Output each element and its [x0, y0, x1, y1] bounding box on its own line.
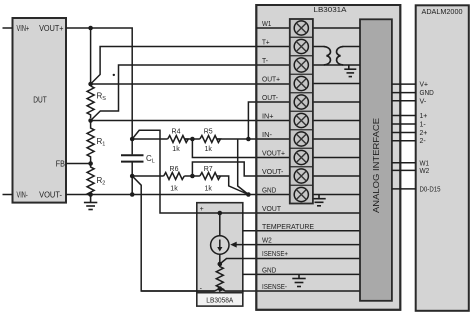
svg-text:VIN+: VIN+ [17, 24, 30, 33]
svg-text:+: + [200, 206, 204, 213]
svg-text:W1: W1 [262, 19, 271, 28]
node R6-R7 junction [190, 174, 195, 179]
terminal screw 4 OUT+ [294, 76, 308, 90]
wire OUT+ internal to AI [313, 83, 360, 85]
svg-text:TEMPERATURE: TEMPERATURE [262, 222, 314, 231]
node R4-R5 junction [190, 137, 195, 142]
wire VOUT- sense (R6R7 mid jog to VOUT- terminal) [192, 162, 289, 176]
svg-text:IN+: IN+ [262, 112, 274, 121]
capacitor CL [121, 139, 155, 176]
resistor R4 [168, 129, 189, 154]
transformer left coil [324, 47, 331, 66]
wire ISENSE- [220, 289, 360, 292]
wire VIN- stub [3, 194, 13, 196]
wire current source to sense resistor [219, 254, 221, 264]
wire T+ internal to AI [313, 46, 360, 48]
svg-text:R7: R7 [204, 166, 213, 173]
wire VIN+ stub [3, 27, 13, 29]
wire W2 with arrow [230, 242, 360, 248]
node junction on VOUT+ wire above Rs [88, 26, 93, 31]
node Rs bottom [88, 118, 93, 123]
analog interface block [360, 19, 392, 301]
wire W1 internal [256, 27, 360, 29]
node GND tie below C_L [130, 192, 135, 197]
ground on transformer secondary [344, 65, 356, 77]
svg-text:1k: 1k [204, 186, 212, 193]
svg-text:VOUT+: VOUT+ [262, 149, 285, 158]
node FB junction [88, 161, 93, 166]
resistor R6 [164, 166, 185, 193]
svg-text:W2: W2 [420, 166, 430, 175]
svg-text:1k: 1k [172, 146, 180, 153]
terminal screw 5 OUT- [294, 95, 308, 109]
svg-text:VOUT-: VOUT- [39, 190, 62, 199]
svg-text:V-: V- [420, 96, 427, 105]
svg-text:ANALOG INTERFACE: ANALOG INTERFACE [371, 118, 381, 213]
wires AI to ADALM2000 [392, 84, 416, 189]
svg-text:GND: GND [262, 265, 276, 274]
svg-text:FB: FB [56, 159, 65, 168]
node C_L top junction [130, 137, 135, 142]
svg-text:ISENSE+: ISENSE+ [262, 249, 288, 258]
wire T- (Kelvin from Rs bottom to LB3031A T-) [91, 65, 290, 121]
wire VOUT jog (C_L node to LB3058A and LB3031A VOUT) [132, 130, 360, 213]
svg-text:R5: R5 [204, 129, 213, 136]
node Rs top [88, 82, 93, 87]
DUT block [13, 18, 67, 203]
wire OUT+ (Rs top to LB3031A OUT+) [91, 83, 290, 85]
svg-text:ISENSE-: ISENSE- [262, 282, 288, 291]
svg-text:OUT-: OUT- [262, 93, 279, 102]
ground at R2 bottom [84, 195, 97, 210]
resistor R1 [87, 121, 105, 164]
terminal screw 7 IN- [294, 132, 308, 146]
node OUT-/IN- tie [246, 137, 251, 142]
resistor R2 [87, 164, 105, 196]
wire R5 right to IN- terminal [217, 138, 290, 140]
svg-text:D0-D15: D0-D15 [420, 184, 441, 193]
svg-text:DUT: DUT [33, 96, 47, 105]
resistor R5 [200, 129, 221, 154]
ground at GND terminal [312, 195, 325, 206]
resistor RS [87, 86, 106, 118]
wire GND drop to LB3058A bottom [132, 176, 214, 291]
LB3058A block base [197, 203, 243, 293]
terminal screw 10 GND [294, 187, 308, 201]
wire IN+ internal to AI [313, 120, 360, 122]
wire R7 right to GND node [217, 176, 249, 195]
wire IN- drop to GND node [238, 139, 249, 195]
svg-text:VOUT: VOUT [262, 204, 282, 213]
svg-text:LB3058A: LB3058A [206, 297, 233, 304]
svg-text:GND: GND [262, 186, 276, 195]
resistor R7 [200, 166, 221, 193]
LB3031A board outline [256, 5, 400, 310]
wire IN+ (Rs bottom to LB3031A IN+) [91, 120, 290, 122]
terminal strip [290, 19, 313, 204]
wire FB [66, 163, 91, 165]
svg-text:W2: W2 [262, 236, 272, 245]
terminal screw 3 T- [294, 58, 308, 72]
node C_L bottom junction [130, 174, 135, 179]
svg-text:1k: 1k [170, 186, 178, 193]
wire VOUT+ internal to AI [313, 157, 360, 159]
wire C_L bottom to GND wire [131, 176, 133, 195]
svg-text:2-: 2- [420, 136, 427, 145]
svg-text:LB3031A: LB3031A [314, 5, 347, 14]
node R2 bottom [88, 192, 93, 197]
wire OUT- internal to AI [313, 101, 360, 103]
node GND junction right [246, 192, 251, 197]
node sense resistor top [218, 262, 223, 267]
wire OUT- (terminal to IN- tie) [248, 102, 289, 139]
wire R6 left [132, 175, 164, 177]
svg-text:VOUT-: VOUT- [262, 167, 284, 176]
ADALM2000 block [416, 5, 469, 311]
current source I1 [211, 236, 229, 254]
wire VOUT- internal to AI [313, 175, 360, 177]
LB3031A board base [256, 5, 400, 310]
svg-text:VOUT+: VOUT+ [39, 24, 64, 33]
wire top node to current source [219, 213, 221, 236]
ground on GND lower wire [292, 274, 305, 286]
wire T- internal to AI [313, 64, 360, 66]
terminal screw 6 IN+ [294, 113, 308, 127]
wire VOUT+ sense (R4R5 mid to VOUT+ terminal) [192, 139, 289, 158]
wire TEMPERATURE [243, 230, 360, 232]
wire IN- internal to AI [313, 138, 360, 140]
wire IN- / R4 R5 string [132, 138, 168, 140]
resistor Rsense [216, 264, 223, 291]
wire from VOUT+ junction down to Rs [90, 28, 92, 84]
svg-text:T-: T- [262, 56, 269, 65]
LB3058A block labels [200, 206, 234, 304]
wire GND internal to AI [313, 194, 360, 196]
svg-text:R6: R6 [170, 166, 179, 173]
wire T+ (Kelvin from Rs top to LB3031A T+) [91, 47, 290, 85]
wire GND lower [243, 273, 360, 275]
wire sense bottom left exit [141, 289, 220, 292]
terminal screw 9 VOUT- [294, 169, 308, 183]
svg-text:IN-: IN- [262, 130, 273, 139]
terminal screw 1 W1 [294, 21, 308, 35]
svg-text:R4: R4 [172, 129, 181, 136]
wire VOUT+ top (DUT VOUT+ right, bends down at x=132.4 to C_L node) [66, 28, 132, 139]
terminal screw 8 VOUT+ [294, 150, 308, 164]
wire ISENSE+ [220, 259, 360, 265]
svg-text:VIN-: VIN- [17, 190, 28, 199]
node sense resistor bottom [218, 286, 223, 291]
wire R4 to R5 [184, 138, 200, 140]
transformer right coil [337, 47, 344, 66]
wire R6 to R7 [184, 175, 200, 177]
svg-text:1k: 1k [204, 146, 212, 153]
svg-text:T+: T+ [262, 38, 270, 47]
node LB3058A top junction [218, 211, 223, 216]
wire GND bottom (DUT VOUT- to LB3031A GND) [66, 194, 290, 196]
svg-text:OUT+: OUT+ [262, 75, 280, 84]
stray dot mark [113, 74, 115, 76]
terminal screw 2 T+ [294, 39, 308, 53]
svg-text:ADALM2000: ADALM2000 [422, 7, 463, 16]
